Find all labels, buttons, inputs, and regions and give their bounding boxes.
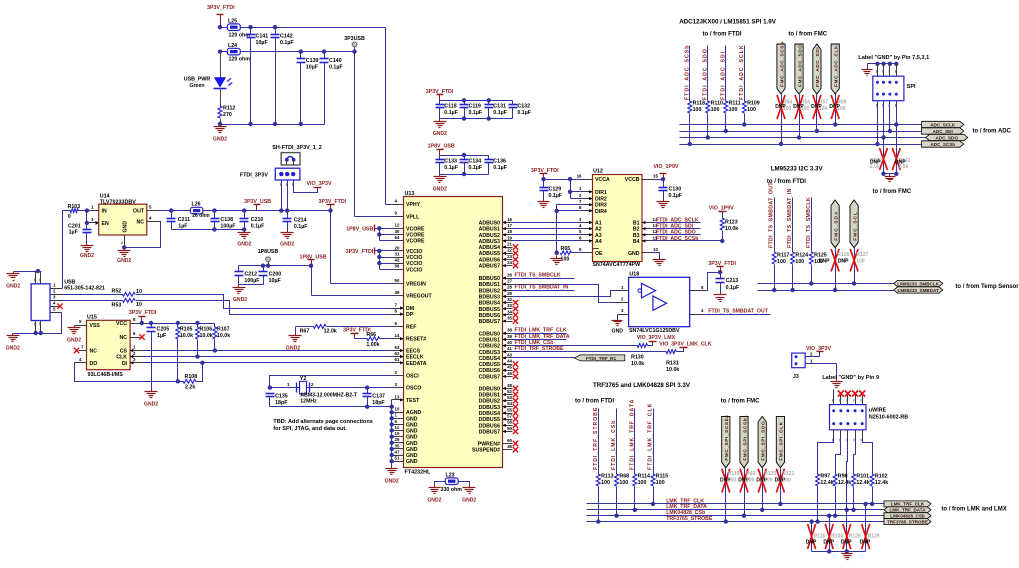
svg-text:C142: C142: [280, 34, 293, 40]
svg-text:59: 59: [507, 426, 512, 431]
ground GND2 below C205: [151, 390, 153, 392]
resistor R112 270: [218, 106, 222, 118]
svg-text:CDBUS5: CDBUS5: [479, 362, 500, 368]
U12 pin 3 A1: [583, 222, 593, 224]
svg-text:R67: R67: [300, 328, 310, 334]
svg-text:VCORE: VCORE: [406, 233, 425, 239]
U13 pin 28 BDBUS2: [503, 290, 513, 292]
svg-text:FMC_SPI_CLK: FMC_SPI_CLK: [779, 421, 785, 460]
svg-text:VCORE: VCORE: [406, 239, 425, 245]
svg-text:120 ohm: 120 ohm: [229, 57, 251, 63]
port TRF3765_STROBE: [884, 519, 931, 525]
svg-text:GND: GND: [406, 422, 418, 428]
svg-text:48: 48: [507, 383, 512, 388]
svg-text:1P8V_USB: 1P8V_USB: [346, 226, 373, 232]
ground below C130: [663, 199, 665, 202]
U13 pin 50 VREGIN: [394, 283, 404, 285]
wire DIR3/DIR4 tie low: [556, 205, 558, 253]
svg-text:0.1µF: 0.1µF: [280, 40, 294, 46]
wire rail1 (3P3V after L25): [241, 27, 386, 29]
U13 pin 11 GND: [394, 430, 404, 432]
svg-text:19: 19: [507, 235, 512, 240]
capacitor C211 1uF: [171, 211, 173, 219]
resistor R114 100: [633, 474, 637, 486]
U13 pin 38 CDBUS0: [503, 333, 513, 335]
wire DO loop to R108: [75, 363, 184, 382]
svg-text:DO: DO: [90, 361, 98, 367]
svg-text:GND: GND: [612, 328, 624, 334]
svg-text:1P8V_USB: 1P8V_USB: [300, 254, 327, 260]
wire FTDI_LMK_TRF_CLK column: [653, 409, 655, 475]
svg-text:28: 28: [507, 285, 512, 290]
wire shield to GND2 left: [14, 271, 38, 273]
wire FTDI_ADC_SDO column: [707, 46, 709, 102]
wire crystal gnd rail: [270, 406, 392, 408]
capacitor C142 0.1uF: [275, 28, 277, 35]
U12 pin 14 B1: [643, 222, 652, 224]
svg-text:C119: C119: [469, 104, 481, 110]
svg-text:C214: C214: [294, 218, 307, 224]
wire 3P3V_FTDI down to rail1: [220, 21, 222, 28]
U18 pin 4 output FTDI_TS_SMBDAT_OUT: [690, 314, 700, 316]
svg-text:100: 100: [782, 477, 791, 483]
svg-text:2.2k: 2.2k: [185, 385, 195, 391]
svg-text:53: 53: [507, 395, 512, 400]
ground GND2 at U15 VSS: [74, 326, 76, 328]
svg-text:24: 24: [507, 260, 512, 265]
svg-text:62: 62: [395, 351, 400, 356]
svg-text:LMK_TRF_DATA: LMK_TRF_DATA: [889, 508, 926, 513]
svg-text:VPLL: VPLL: [406, 214, 420, 220]
svg-text:GND: GND: [406, 435, 418, 441]
svg-text:ABM3-12.000MHZ-B2-T: ABM3-12.000MHZ-B2-T: [300, 392, 358, 398]
svg-text:CDBUS0: CDBUS0: [479, 331, 500, 337]
svg-text:3P3V_FTDI: 3P3V_FTDI: [708, 261, 736, 267]
resistor R108 2.2k: [183, 379, 196, 383]
U13 pin 7 DM: [394, 308, 404, 310]
ground GND at U18 pin 3: [618, 315, 619, 319]
U13 pin 2 OSCI: [394, 375, 404, 377]
ground GND2 below LED chain: [220, 125, 222, 127]
svg-text:R101: R101: [856, 474, 869, 480]
U12 pin 1 DIR1: [583, 191, 593, 193]
svg-text:EECS: EECS: [406, 349, 421, 355]
svg-text:FTDI_TRF_R1: FTDI_TRF_R1: [586, 356, 617, 361]
svg-text:U14: U14: [100, 193, 110, 199]
svg-text:C140: C140: [329, 58, 342, 64]
U13 pin 19 ADBUS3: [503, 240, 513, 242]
svg-text:100: 100: [764, 477, 773, 483]
U13 pin 3 OSCO: [394, 387, 404, 389]
svg-text:LM95233_SMBCLK: LM95233_SMBCLK: [897, 281, 939, 286]
wire BDBUS1 to U18 pin 2: [513, 285, 619, 303]
resistor R53 10: [61, 300, 123, 302]
wire rail2 to 3P3USB: [241, 51, 355, 53]
wire 1P8V rail: [239, 265, 312, 267]
U13 pin 36 SUSPEND#: [503, 449, 513, 451]
power flag 3P3V_USB on rail: [256, 205, 258, 211]
svg-text:VIO_3P3V_LMX: VIO_3P3V_LMX: [637, 335, 676, 341]
wire TEST to gnd chain: [392, 399, 394, 401]
svg-text:C129: C129: [549, 186, 562, 192]
svg-text:33: 33: [507, 303, 512, 308]
svg-text:0.1µF: 0.1µF: [517, 110, 531, 116]
svg-text:100: 100: [601, 480, 610, 486]
svg-text:NC: NC: [120, 335, 128, 341]
U15 VCC pin 8: [131, 323, 141, 325]
capacitor C139 10uF: [300, 52, 302, 59]
svg-text:0.1µF: 0.1µF: [493, 110, 507, 116]
resistor R132 2.0k DNP: [883, 138, 885, 174]
svg-text:DNP: DNP: [870, 160, 881, 166]
U13 pin 44 CDBUS5: [503, 364, 513, 366]
svg-text:DDBUS6: DDBUS6: [479, 423, 500, 429]
svg-text:FMC_SPI_SCSb2: FMC_SPI_SCSb2: [724, 415, 730, 461]
svg-text:ADC_SCLK: ADC_SCLK: [930, 122, 956, 127]
U18 buffer triangle 2: [653, 296, 667, 310]
svg-text:R124: R124: [795, 252, 808, 258]
svg-text:C212: C212: [244, 272, 257, 278]
wire cap bottoms: [239, 284, 264, 286]
svg-text:DIR4: DIR4: [595, 209, 607, 215]
svg-text:CDBUS3: CDBUS3: [479, 350, 500, 356]
U13 pin 21 ADBUS4: [503, 247, 513, 249]
wire R110 to bus: [707, 114, 709, 138]
U13 pin 54 DDBUS3: [503, 406, 513, 408]
svg-text:R103: R103: [68, 204, 81, 210]
svg-text:GND: GND: [123, 221, 129, 233]
U15 NC pin 7 no-connect: [79, 350, 87, 352]
svg-text:DIR3: DIR3: [595, 203, 607, 209]
svg-text:VIO_3P3V: VIO_3P3V: [806, 346, 831, 352]
wire rail1 down to VPHY: [385, 28, 387, 205]
svg-text:1µF: 1µF: [178, 224, 188, 230]
port LMK04828_CSb: [884, 513, 931, 519]
svg-text:47: 47: [395, 449, 400, 454]
svg-text:27: 27: [507, 279, 512, 284]
svg-text:FTDI_TRF_STROBE: FTDI_TRF_STROBE: [515, 346, 565, 352]
svg-text:1.00k: 1.00k: [366, 342, 379, 348]
svg-text:R114: R114: [638, 474, 650, 480]
USB pin 5: [51, 312, 62, 314]
wire R52 to DM: [136, 295, 394, 309]
wire pin5 to shield gnd: [13, 313, 62, 334]
svg-text:AGND: AGND: [406, 410, 422, 416]
power flag VIO_3P3V at jumper: [314, 187, 322, 189]
wire OSCI to crystal: [270, 376, 394, 388]
svg-text:C133: C133: [444, 158, 457, 164]
U12 pin 5 A3: [583, 234, 593, 236]
ground GND2 usb top-left: [13, 272, 15, 274]
svg-text:U12: U12: [593, 169, 603, 175]
power flag 3P3V_FTDI at C118 group: [439, 95, 441, 101]
flag FMC_ADC_SDI: [813, 44, 821, 94]
svg-text:SPI: SPI: [907, 84, 916, 90]
capacitor C141 10uF: [250, 28, 252, 35]
ground GND2 at R67: [295, 327, 297, 334]
svg-text:12.4k: 12.4k: [820, 480, 833, 486]
svg-text:for SPI, JTAG, and data out.: for SPI, JTAG, and data out.: [273, 426, 347, 432]
svg-text:VCC: VCC: [116, 321, 127, 327]
wire SMB bus lines: [758, 283, 894, 285]
svg-text:L26: L26: [192, 202, 201, 208]
U13 pin 35 BDBUS7: [503, 321, 513, 323]
svg-text:12.4k: 12.4k: [875, 480, 888, 486]
U13 pin 20 VCCIO: [394, 250, 404, 252]
port ADC_SDI: [922, 128, 964, 134]
svg-text:FTDI_3P3V: FTDI_3P3V: [240, 173, 269, 179]
svg-text:ADC_SDI: ADC_SDI: [933, 129, 953, 134]
U13 pin 31 VCCIO: [394, 257, 404, 259]
svg-text:15: 15: [395, 431, 400, 436]
svg-text:R98: R98: [838, 474, 848, 480]
resistor R103 0: [63, 210, 71, 212]
svg-text:100: 100: [856, 258, 865, 264]
svg-text:58: 58: [507, 420, 512, 425]
svg-text:CDBUS2: CDBUS2: [479, 344, 500, 350]
svg-text:GND2: GND2: [233, 297, 247, 303]
U12 pin 4 A2: [583, 228, 593, 230]
U12 pin 11 B4: [643, 240, 652, 242]
svg-text:38: 38: [507, 328, 512, 333]
svg-text:LM95233 I2C 3.3V: LM95233 I2C 3.3V: [771, 165, 824, 172]
U13 pin 51 GND: [394, 461, 404, 463]
U13 pin 46 CDBUS7: [503, 376, 513, 378]
wire R106 down to CLK: [197, 340, 199, 357]
U12 pin 8 DIR4: [583, 210, 593, 212]
U13 pin 24 ADBUS7: [503, 265, 513, 267]
wire OUT rail 3P3V_USB: [157, 210, 331, 212]
svg-text:GND2: GND2: [6, 345, 20, 351]
svg-text:14: 14: [395, 333, 400, 338]
flag FMC_SDA: [831, 200, 839, 248]
wire R101 to bus: [853, 487, 855, 510]
USB shield pins bottom: [35, 321, 37, 334]
svg-text:10: 10: [395, 407, 400, 412]
svg-text:0.1µF: 0.1µF: [251, 224, 265, 230]
net label FTDI_TRF_STROBE on CDBUS3 + R131: [513, 351, 667, 353]
resistor R126 100 DNP: [835, 248, 837, 291]
USB shield pins top: [35, 272, 37, 284]
svg-text:ADC_SCSb: ADC_SCSb: [930, 142, 955, 147]
svg-text:C205: C205: [157, 327, 170, 333]
svg-text:3P3V_FTDI: 3P3V_FTDI: [531, 168, 559, 174]
U13 pin 9 VPLL: [394, 216, 404, 218]
inductor L24: [227, 48, 240, 55]
svg-text:100: 100: [693, 107, 702, 113]
svg-text:FTDI_ADC_SCSb: FTDI_ADC_SCSb: [656, 236, 698, 242]
net label FTDI_LMK_CSb on CDBUS2 + R130: [513, 345, 638, 347]
resistor R66 1.00k to RESET#: [355, 338, 368, 340]
connector SPI 2x4: [877, 64, 879, 77]
svg-text:61: 61: [395, 357, 400, 362]
ground at J3 pin1 / uWIRE pin9: [836, 380, 838, 382]
node C211: [169, 208, 173, 212]
power flag VIO_3P3V_LMX: [649, 341, 657, 343]
svg-text:12.0k: 12.0k: [324, 328, 337, 334]
U12 pin 12 B3: [643, 234, 652, 236]
U13 pin 29 BDBUS3: [503, 296, 513, 298]
svg-text:LMK04828_CSb: LMK04828_CSb: [890, 514, 925, 519]
wire C133 top rail: [440, 155, 489, 157]
U12 pin 7 DIR3: [583, 204, 593, 206]
svg-text:0.1µF: 0.1µF: [469, 165, 483, 171]
wire R102 to bus: [872, 487, 874, 504]
wire R118 to bus: [689, 114, 691, 145]
capacitor C140 0.1uF: [324, 52, 326, 59]
svg-text:100: 100: [777, 259, 786, 265]
svg-text:12.4k: 12.4k: [856, 480, 869, 486]
svg-text:45: 45: [507, 365, 512, 370]
wire BDBUS3 to U18 pin 1: [513, 291, 619, 297]
capacitor C210 0.1uF: [244, 211, 246, 219]
svg-text:C139: C139: [306, 58, 319, 64]
svg-text:21: 21: [507, 242, 512, 247]
svg-text:REF: REF: [406, 324, 416, 330]
svg-text:TRF3765_STROBE: TRF3765_STROBE: [666, 516, 713, 522]
svg-text:to / from Temp Sensor: to / from Temp Sensor: [955, 284, 1019, 290]
resistor R69 100 DNP: [744, 468, 746, 516]
wire LMK bus lines: [587, 503, 885, 505]
wire L23 left to GND2: [435, 482, 446, 486]
svg-text:FMC_SPI_SDO: FMC_SPI_SDO: [761, 421, 767, 461]
flag FMC_ADC_SDO: [795, 44, 803, 94]
U13 pin 13 TEST: [394, 399, 404, 401]
svg-text:11: 11: [395, 425, 400, 430]
resistor R128 DNP: [846, 510, 848, 552]
U13 pin 41 CDBUS3: [503, 351, 513, 353]
svg-text:29: 29: [507, 291, 512, 296]
svg-text:C134: C134: [469, 158, 482, 164]
resistor R115 100: [651, 474, 655, 486]
svg-text:Green: Green: [189, 83, 204, 89]
wire NC loop to gnd: [125, 222, 161, 248]
resistor R102 12.4k: [870, 474, 874, 486]
svg-text:R129: R129: [868, 534, 880, 540]
svg-text:0.1µF: 0.1µF: [444, 110, 458, 116]
svg-text:C137: C137: [372, 393, 385, 399]
resistor R111 100: [724, 101, 728, 113]
svg-text:ADBUS3: ADBUS3: [479, 239, 500, 245]
svg-text:0.1µF: 0.1µF: [726, 285, 740, 291]
svg-text:DNP: DNP: [838, 258, 849, 264]
svg-text:TRF3765_STROBE: TRF3765_STROBE: [887, 519, 928, 524]
U13 pin 18 ADBUS2: [503, 234, 513, 236]
capacitor C213 0.1uF: [720, 273, 722, 279]
wire uWIRE pin routing col3: [847, 438, 848, 510]
power flag 1P8V_USB at C133 group: [439, 150, 441, 156]
wire FTDI_LMK_CSb column: [616, 409, 618, 475]
svg-text:OSCO: OSCO: [406, 386, 421, 392]
port ADC_SDO: [926, 134, 968, 140]
resistor R141 2.0k DNP: [896, 125, 898, 174]
wire R97 to bus: [817, 487, 819, 522]
resistor R118 100: [688, 101, 692, 113]
resistor R65 100 to OE: [560, 251, 571, 255]
svg-text:GND2: GND2: [433, 131, 447, 137]
resistor R119 100 DNP: [725, 468, 727, 522]
U13 pin 23 ADBUS6: [503, 259, 513, 261]
svg-text:R68: R68: [619, 474, 629, 480]
svg-text:R120: R120: [764, 471, 776, 477]
svg-text:GND: GND: [406, 416, 418, 422]
wire DIR1/DIR2 tie high: [570, 180, 572, 199]
svg-text:VCCIO: VCCIO: [406, 261, 422, 267]
svg-text:CDBUS4: CDBUS4: [479, 356, 500, 362]
svg-text:C213: C213: [726, 278, 739, 284]
ground GND2 below C210: [244, 230, 246, 233]
U13 pin 35 GND: [394, 448, 404, 450]
svg-text:651-305-142-821: 651-305-142-821: [64, 286, 105, 292]
svg-text:EN: EN: [102, 221, 109, 227]
svg-text:10.0k: 10.0k: [631, 361, 644, 367]
svg-text:50: 50: [395, 278, 400, 283]
svg-text:1P8V_USB: 1P8V_USB: [428, 144, 455, 150]
svg-text:54: 54: [507, 401, 512, 406]
svg-text:43: 43: [507, 352, 512, 357]
svg-text:FTDI_LMK_TRF_CLK: FTDI_LMK_TRF_CLK: [648, 403, 654, 470]
U13 pin 16 ADBUS0: [503, 222, 513, 224]
wire R53 to DP: [136, 301, 394, 315]
svg-text:DP: DP: [406, 312, 414, 318]
wire FTDI_LMK_TRF_DATA column: [634, 409, 636, 475]
svg-text:USB: USB: [64, 280, 75, 286]
port LMK_TRF_CLK: [884, 501, 931, 507]
flag FMC_ADC_SCSb: [777, 44, 785, 94]
U12 pin 10 GND: [643, 252, 652, 254]
svg-text:R107: R107: [217, 327, 230, 333]
wire VCCB rail: [653, 179, 664, 181]
resistor R110 100: [706, 101, 710, 113]
svg-text:R66: R66: [366, 332, 376, 338]
svg-text:DNP: DNP: [829, 104, 840, 110]
wires SPI bottom pins to buses: [877, 101, 879, 145]
svg-text:36: 36: [507, 444, 512, 449]
svg-text:R52: R52: [112, 289, 122, 295]
ground GND2 usb bottom: [12, 334, 14, 336]
ground below SPI DNPs: [889, 174, 891, 177]
svg-text:LM95233_SMBDAT: LM95233_SMBDAT: [898, 288, 939, 293]
pin 2 wire of FTDI_3P3V to C214/3P3V_FTDI rail: [287, 181, 289, 219]
svg-text:DNP: DNP: [806, 540, 817, 546]
U13 pin 47 GND: [394, 455, 404, 457]
svg-text:57: 57: [507, 414, 512, 419]
capacitor C136 0.1uF: [488, 156, 490, 160]
svg-text:100µF: 100µF: [220, 224, 236, 230]
wire 3P3USB down to VPLL: [354, 52, 356, 217]
U13 pin 59 DDBUS7: [503, 431, 513, 433]
USB pin 1 VBUS: [51, 288, 63, 290]
resistor R109 100: [742, 101, 746, 113]
wire DNP gnd rail: [884, 173, 897, 175]
port LMK_TRF_DATA: [884, 507, 931, 513]
svg-text:20: 20: [395, 245, 400, 250]
svg-text:GND2: GND2: [385, 479, 399, 485]
U13 pin 61 EEDATA: [394, 362, 404, 364]
svg-text:10.0k: 10.0k: [200, 333, 213, 339]
pin 3 wire of FTDI_3P3V to VIO_3P3V: [294, 181, 318, 193]
ground GND2 below C201: [86, 244, 88, 246]
svg-text:C136: C136: [493, 158, 506, 164]
svg-text:R131: R131: [666, 360, 679, 366]
wire R103 to U14 IN: [79, 210, 89, 212]
svg-text:100: 100: [746, 477, 755, 483]
svg-text:ADBUS7: ADBUS7: [479, 264, 500, 270]
svg-text:0.1µF: 0.1µF: [469, 110, 483, 116]
wire ADBUS0-3 to U12 A1-A4: [513, 222, 583, 224]
svg-text:FTDI_TRF_STROBE: FTDI_TRF_STROBE: [593, 407, 599, 470]
svg-text:GND2: GND2: [462, 498, 476, 504]
